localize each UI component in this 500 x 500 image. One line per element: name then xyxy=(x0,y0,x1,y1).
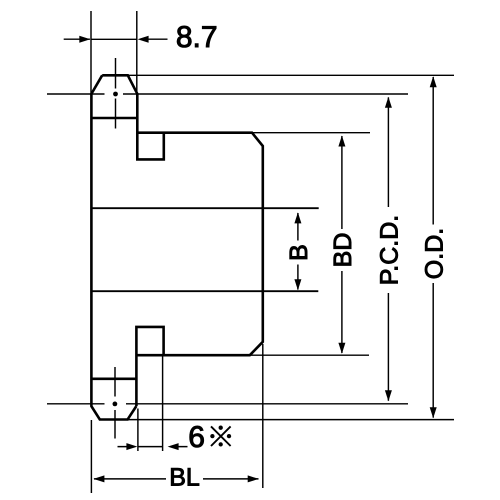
bottom tooth centerline horizontal xyxy=(47,403,408,405)
arrow 8.7 right xyxy=(138,36,149,43)
reference mark xyxy=(211,426,231,446)
arrow O.D. up xyxy=(430,76,437,87)
arrow 8.7 left xyxy=(79,36,90,43)
extension lines O.D. xyxy=(128,75,454,419)
dimension line 6 xyxy=(118,446,188,448)
svg-text:6: 6 xyxy=(188,421,205,454)
extension lines BL xyxy=(91,344,262,493)
dimension line 8.7 xyxy=(64,38,168,40)
arrow O.D. down xyxy=(430,407,437,418)
sprocket body outline xyxy=(91,75,262,419)
arrow P.C.D. down xyxy=(385,390,392,401)
dimension line BL xyxy=(94,478,259,480)
dimension line O.D. xyxy=(432,77,434,418)
top tooth centerline vertical xyxy=(115,58,117,129)
svg-text:O.D.: O.D. xyxy=(420,228,448,279)
svg-text:P.C.D.: P.C.D. xyxy=(376,215,404,285)
arrow BD down xyxy=(338,343,345,354)
dimension line B xyxy=(297,213,299,290)
arrow P.C.D. up xyxy=(385,97,392,108)
arrow BD up xyxy=(338,136,345,147)
extension lines 8.7 xyxy=(91,11,137,94)
arrow 6 left xyxy=(126,443,137,450)
svg-text:BD: BD xyxy=(329,233,357,268)
pitch point top xyxy=(113,92,118,97)
arrow B down xyxy=(294,279,301,290)
bottom tooth centerline vertical xyxy=(114,367,116,439)
top tooth centerline horizontal xyxy=(47,93,408,95)
svg-text:BL: BL xyxy=(169,464,200,492)
arrow BL right xyxy=(248,475,259,482)
extension lines BD xyxy=(250,133,370,356)
dimension line P.C.D. xyxy=(387,97,389,400)
bore lines xyxy=(91,208,318,291)
pitch point bottom xyxy=(113,402,118,407)
arrow 6 right xyxy=(168,443,179,450)
arrow BL left xyxy=(93,475,104,482)
dimension line BD xyxy=(341,136,343,353)
svg-text:B: B xyxy=(285,244,313,261)
arrow B up xyxy=(294,212,301,223)
extension lines 6 xyxy=(138,357,163,452)
svg-text:8.7: 8.7 xyxy=(176,21,218,54)
